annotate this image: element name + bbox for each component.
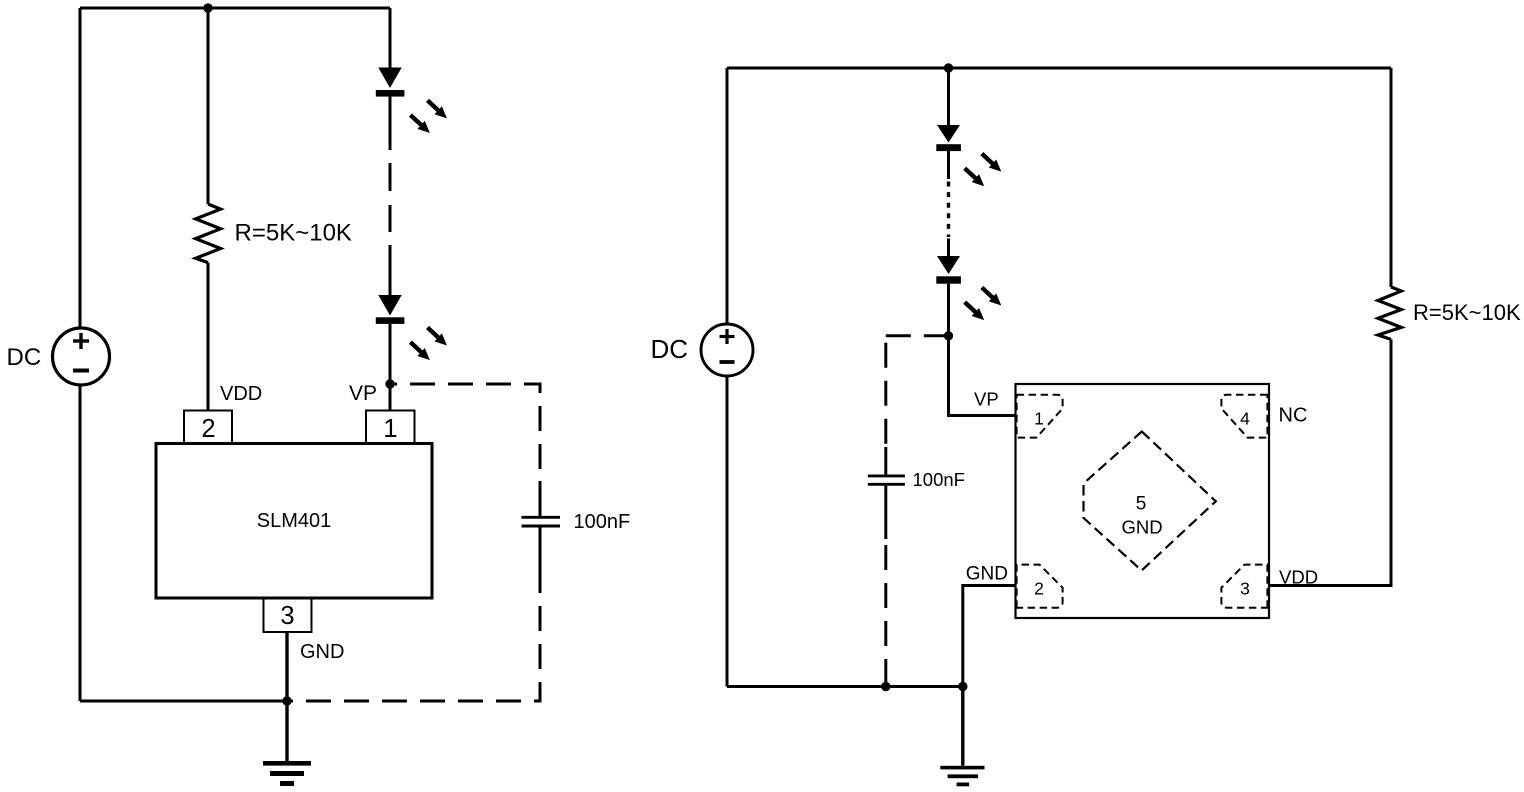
node top junction left: [203, 3, 212, 12]
svg-text:100nF: 100nF: [574, 511, 631, 533]
pin box 3 SLM401: [264, 598, 312, 632]
wire dashed node VP to capacitor top corner: [390, 384, 540, 481]
DC source V1: [53, 328, 110, 385]
svg-text:R=5K~10K: R=5K~10K: [1413, 300, 1521, 325]
wire dashed series continuation: [389, 163, 392, 191]
svg-text:1: 1: [383, 415, 397, 443]
LED D3 anode triangle: [937, 125, 960, 143]
wire top rail to resistor R1: [207, 8, 210, 204]
svg-text:DC: DC: [7, 344, 42, 371]
wire dashed node VP to capacitor 2 branch: [886, 334, 949, 337]
wire LED D1 lead: [389, 97, 392, 151]
pad 2 dashed: [1017, 565, 1063, 608]
wire LED D4 to node VP right: [947, 284, 950, 336]
svg-text:VDD: VDD: [220, 383, 262, 405]
wire top rail right circuit: [727, 67, 1391, 70]
wire top rail to LED D1: [389, 8, 392, 68]
wire top rail to LED D3: [947, 68, 950, 125]
wire node VP down and into pin 1: [949, 336, 1016, 416]
node VP left: [385, 379, 394, 388]
svg-text:VP: VP: [974, 389, 999, 410]
wire pin 3 to ground node: [285, 632, 288, 701]
LED D3 light rays: [965, 154, 1002, 187]
wire dotted series continuation: [947, 182, 950, 238]
wire pin 3 to resistor R2: [1269, 339, 1391, 585]
pad 1 dashed: [1017, 395, 1063, 438]
node ground junction left: [282, 696, 291, 705]
resistor R1 zigzag: [196, 204, 221, 263]
LED D2 anode triangle: [378, 295, 401, 316]
LED D1 cathode bar: [376, 90, 405, 97]
node capacitor 2 to bottom rail: [881, 682, 890, 691]
LED D3 cathode bar: [936, 144, 961, 151]
wire bottom rail left circuit: [80, 700, 287, 703]
pad 3 dashed: [1221, 565, 1267, 608]
LED D1 anode triangle: [378, 68, 401, 89]
pad 5 thermal diamond dashed: [1084, 432, 1216, 571]
svg-text:3: 3: [280, 602, 294, 630]
wire dashed capacitor branch lower and bottom return to ground node: [287, 590, 540, 701]
LED D1 light rays: [410, 100, 447, 133]
pad 4 dashed: [1221, 395, 1267, 438]
LED D4 light rays: [965, 288, 1002, 321]
svg-text:GND: GND: [300, 641, 344, 663]
svg-text:100nF: 100nF: [913, 469, 965, 490]
wire capacitor C1 top lead: [539, 481, 542, 516]
wire top rail left circuit: [80, 7, 390, 10]
IC U1 SLM401 body: [156, 444, 432, 599]
wire LED D2 to node VP: [389, 324, 392, 384]
wire dashed capacitor 2 branch lower: [884, 539, 887, 687]
wire capacitor C2 top lead: [884, 447, 887, 475]
svg-text:4: 4: [1240, 409, 1250, 429]
wire bottom rail right circuit: [727, 685, 963, 688]
wire node VP to pin 1: [389, 384, 392, 411]
svg-text:3: 3: [1240, 579, 1250, 599]
svg-text:DC: DC: [651, 334, 689, 364]
wire capacitor C2 bottom lead: [884, 486, 887, 539]
wire rail down to DC source 2: [726, 68, 729, 324]
wire capacitor C1 bottom lead: [539, 528, 542, 591]
wire resistor to pin 2: [207, 263, 210, 411]
svg-text:2: 2: [1034, 579, 1044, 599]
svg-text:SLM401: SLM401: [257, 510, 332, 532]
svg-text:VP: VP: [349, 382, 377, 405]
ground symbol right: [961, 687, 964, 766]
capacitor C1 plates: [522, 516, 561, 519]
wire from rail down to DC source plus: [79, 8, 82, 328]
capacitor C2 plates: [868, 474, 905, 477]
svg-text:R=5K~10K: R=5K~10K: [235, 219, 352, 246]
svg-text:GND: GND: [1121, 517, 1162, 538]
svg-text:1: 1: [1034, 409, 1044, 429]
wire lead to LED D4: [947, 239, 950, 257]
DC source V2: [701, 324, 753, 376]
node VP right: [944, 331, 953, 340]
svg-text:5: 5: [1136, 494, 1147, 515]
pin box 2 SLM401: [184, 411, 232, 444]
svg-text:2: 2: [201, 415, 215, 443]
LED D2 cathode bar: [376, 317, 405, 324]
svg-text:GND: GND: [966, 564, 1008, 585]
wire DC minus down to bottom rail: [79, 385, 82, 701]
LED D2 light rays: [410, 328, 447, 361]
svg-text:NC: NC: [1279, 405, 1308, 427]
wire DC source 2 to bottom rail: [726, 376, 729, 687]
IC U2 body: [1016, 384, 1270, 618]
wire LED D3 lead: [947, 151, 950, 179]
node top junction right: [944, 63, 953, 72]
wire lead to LED D2: [389, 245, 392, 295]
pin box 1 SLM401: [366, 411, 415, 444]
wire pin 2 to ground node right: [963, 586, 1016, 687]
wire dashed capacitor 2 branch upper: [884, 336, 887, 447]
wire resistor R2 to top rail: [1390, 68, 1393, 287]
ground symbol left: [285, 701, 288, 761]
node ground junction right: [958, 682, 967, 691]
LED D4 anode triangle: [937, 256, 960, 274]
resistor R2 zigzag: [1378, 287, 1401, 339]
LED D4 cathode bar: [936, 276, 961, 283]
